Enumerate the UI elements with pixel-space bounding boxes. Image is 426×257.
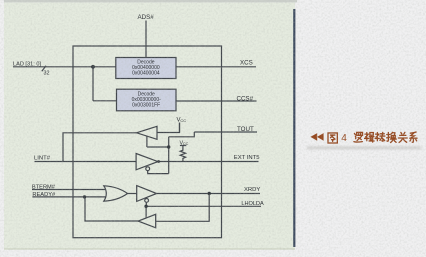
Vcc2 bar <box>180 145 186 147</box>
wire enable loop bottom <box>148 171 169 174</box>
glyph zhuan (turn-1) <box>375 132 385 141</box>
node LAD branch <box>91 65 95 69</box>
wire enable net vertical through node D1 <box>168 137 170 174</box>
glyph tu (picture) <box>328 133 337 143</box>
buffer U4 (right-pointing tri-state) <box>136 154 158 170</box>
bus width slash <box>42 66 46 72</box>
wire READY# input <box>32 196 105 198</box>
wire U7 enable <box>145 206 147 218</box>
schematic line work <box>13 21 261 238</box>
wire U6 enable to node D2 <box>145 202 147 206</box>
wire ADS# vertical <box>145 21 147 59</box>
wire U3 output to LINT# net <box>63 133 137 162</box>
wire XRDY loop down <box>156 194 210 222</box>
wire LINT# input <box>35 161 137 163</box>
node XRDY <box>208 192 211 195</box>
frame box <box>73 46 222 238</box>
node U4 output <box>157 160 160 163</box>
glyph luo (logic-1) <box>354 132 363 142</box>
OR gate U5 <box>104 186 128 201</box>
wire U7 output loop to READY# <box>85 197 138 221</box>
decoder U2 box <box>117 89 177 111</box>
node D2 <box>144 205 147 208</box>
resistor R1 <box>180 146 185 162</box>
top gray bar <box>4 0 297 2</box>
node D1 <box>167 145 170 148</box>
decoder U1 box <box>116 58 176 79</box>
node READY# <box>83 195 86 198</box>
bottom edge shade of green area <box>4 248 295 250</box>
glyph guan (relation-1) <box>398 132 407 142</box>
caption scan shadow <box>307 146 421 149</box>
green page area <box>4 3 295 250</box>
wire LAD branch vertical <box>92 67 94 101</box>
wire XCS output <box>176 66 256 68</box>
bubble U4 enable <box>146 167 150 171</box>
caption text (hand-drawn CJK glyphs) <box>328 132 417 143</box>
wire OR output <box>128 193 137 195</box>
glyph huan (exchange) <box>387 132 397 142</box>
junction dots <box>83 65 211 208</box>
wire LAD bus horizontal <box>13 66 116 68</box>
wire XRDY output <box>157 193 260 195</box>
wire TOUT output <box>194 131 257 133</box>
wire LHOLDA output <box>146 205 261 207</box>
wire into decoder 2 <box>93 100 117 102</box>
buffer U3 (left-pointing) <box>137 126 158 139</box>
wire U3 input line <box>157 123 180 133</box>
glyph xi (relation-2) <box>410 132 417 142</box>
wire BTERM# input <box>32 189 105 191</box>
buffer U7 (left-pointing) <box>138 214 156 228</box>
separator rule (blue vertical line) <box>293 9 295 247</box>
wire CCS# output <box>176 100 257 102</box>
signal labels <box>13 14 264 207</box>
wire U3 enable drop <box>146 136 148 147</box>
Vcc1 drop <box>179 123 181 133</box>
wire enable net horizontal <box>147 146 169 148</box>
wire enable to TOUT step <box>169 132 195 137</box>
buffer U6 (right-pointing tri-state) <box>137 186 157 202</box>
wire EXT INT5 output <box>158 161 259 163</box>
caption: "figure 4" marker triangles <box>310 133 323 141</box>
bubble U6 enable <box>145 199 149 203</box>
glyph ji (logic-2) <box>365 133 375 143</box>
